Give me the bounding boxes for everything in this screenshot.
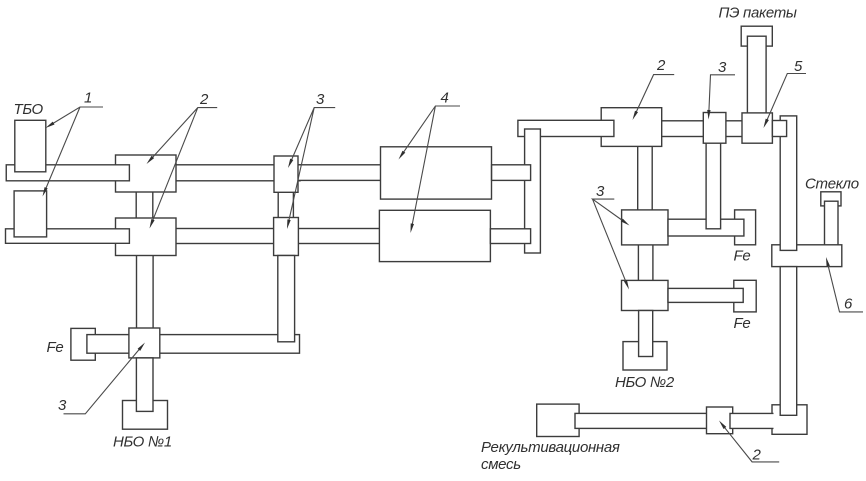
svg-text:смесь: смесь (481, 456, 521, 473)
block 2 bottom (707, 407, 733, 434)
bin recultivation mix (537, 404, 579, 436)
arrowhead 2b (150, 219, 155, 229)
block NBO1 (123, 401, 168, 430)
leader 6 (827, 263, 863, 312)
wire riser vertical (525, 129, 541, 253)
bin Fe lower (734, 280, 756, 312)
bin glass cap (821, 192, 841, 206)
wire bottom bar block2btm to corner (730, 413, 774, 428)
svg-text:6: 6 (844, 296, 853, 313)
block 6 (772, 245, 842, 267)
wire chute separator to NBO1 (136, 358, 153, 412)
svg-text:5: 5 (794, 58, 803, 75)
block 4 row1 (381, 147, 492, 199)
block 3 top-right (703, 113, 726, 144)
arrowhead 3tr (707, 110, 710, 120)
wire chute block B to NBO2 (639, 311, 653, 357)
leader 3 middle (593, 199, 627, 284)
wire bar B3TR-B5 (720, 121, 748, 137)
block 3 row1 (274, 156, 298, 192)
arrowhead 4b (411, 223, 415, 233)
block 3 row2 (274, 218, 299, 256)
svg-text:4: 4 (441, 90, 449, 107)
block separator left 3 (129, 328, 160, 358)
leader 2 (151, 108, 218, 223)
svg-text:Fe: Fe (47, 339, 64, 356)
wire bar block B to Fe lower (668, 288, 743, 302)
svg-text:НБО №2: НБО №2 (615, 374, 675, 391)
wire bar B2TR-B3TR (655, 121, 710, 137)
wire chute B3TR down to bar (706, 141, 721, 229)
svg-text:3: 3 (316, 91, 325, 108)
wire bar riser to B2TR (518, 120, 614, 136)
block B separator 3 (622, 280, 669, 310)
wire chute B2TR down to block A (638, 144, 653, 212)
wire bar B4R2 to riser (490, 229, 530, 244)
block 2 row1 (116, 155, 177, 192)
svg-text:3: 3 (718, 59, 727, 76)
leader 3 left (64, 347, 142, 414)
arrowhead 1b (43, 187, 48, 196)
block 2 row2 (116, 218, 177, 256)
leader 2 bottom (723, 425, 780, 462)
wire conveyor row2 segment B2R2-B3R2 (170, 229, 280, 244)
arrowhead 3a (288, 159, 293, 168)
wire conveyor row1 left end (6, 165, 129, 181)
wire bar B4R1 to riser (492, 165, 531, 181)
arrowhead 5 (764, 119, 769, 128)
wire bottom bar bin to block2btm (575, 413, 710, 428)
svg-text:Стекло: Стекло (805, 176, 859, 193)
wire vertical chute B3R1-B3R2 (278, 188, 293, 222)
bin Fe upper (735, 210, 756, 245)
wire conveyor row1 segment B2R1-B3R1 (172, 165, 300, 181)
arrowhead 3mb (624, 280, 629, 289)
wire glass pipe (825, 201, 839, 247)
leader 1 (45, 107, 103, 191)
bin TBO 2 (14, 191, 47, 237)
block corner bottom-right (772, 405, 807, 435)
svg-text:ТБО: ТБО (14, 101, 44, 118)
svg-text:2: 2 (752, 447, 762, 464)
svg-text:Fe: Fe (734, 315, 751, 332)
arrowhead 6 (826, 257, 830, 267)
arrowhead 3b (287, 219, 291, 229)
svg-text:НБО №1: НБО №1 (113, 434, 172, 451)
svg-text:2: 2 (656, 57, 666, 74)
arrowhead 4a (399, 151, 406, 160)
arrowhead 1a (46, 122, 55, 128)
bin TBO 1 (15, 120, 46, 172)
wire descender lower segment (780, 267, 797, 416)
block 4 row2 (379, 210, 490, 261)
wire tab block5 to descender (772, 121, 786, 137)
svg-text:1: 1 (84, 90, 92, 107)
leader 5 (766, 74, 806, 123)
leader 4 (402, 106, 460, 227)
leader 3 (288, 108, 335, 224)
wire descender upper segment (780, 116, 797, 251)
wire chute B3R2 down to bar (278, 256, 295, 342)
arrowhead 2tr (633, 111, 639, 120)
bin Fe left (71, 328, 95, 360)
svg-text:Fe: Fe (734, 248, 751, 265)
leader 3 top-right (709, 75, 735, 114)
wire conveyor row2 segment B3R2-B4R2 (294, 229, 383, 244)
svg-text:Рекультивационная: Рекультивационная (481, 439, 620, 456)
svg-text:3: 3 (596, 183, 605, 200)
block 2 top-right (601, 108, 662, 147)
wire bar block A to Fe upper (668, 219, 744, 236)
svg-text:ПЭ пакеты: ПЭ пакеты (719, 5, 797, 22)
wire conveyor row2 left end (6, 229, 130, 244)
arrowhead 2 bottom (719, 421, 726, 430)
svg-text:3: 3 (58, 397, 67, 414)
block NBO2 (623, 342, 667, 370)
wire vertical chute B2R2 to separator (137, 253, 154, 329)
arrowhead 2a (147, 156, 155, 164)
wire vertical chute B2R1-B2R2 (136, 188, 153, 222)
arrowhead 3 left (138, 343, 145, 351)
svg-text:2: 2 (199, 91, 209, 108)
wire PE bags pipe (747, 36, 766, 115)
arrowhead 3ma (621, 219, 630, 226)
block A separator 3 (622, 210, 668, 245)
leader 2 top-right (635, 75, 674, 115)
wire long bottom-left bar (87, 335, 300, 354)
bin PE bags cap (741, 26, 772, 46)
block 5 (742, 113, 772, 143)
wire conveyor row1 segment B3R1-B4R1 (294, 165, 384, 181)
wire chute block A to block B (638, 243, 653, 282)
